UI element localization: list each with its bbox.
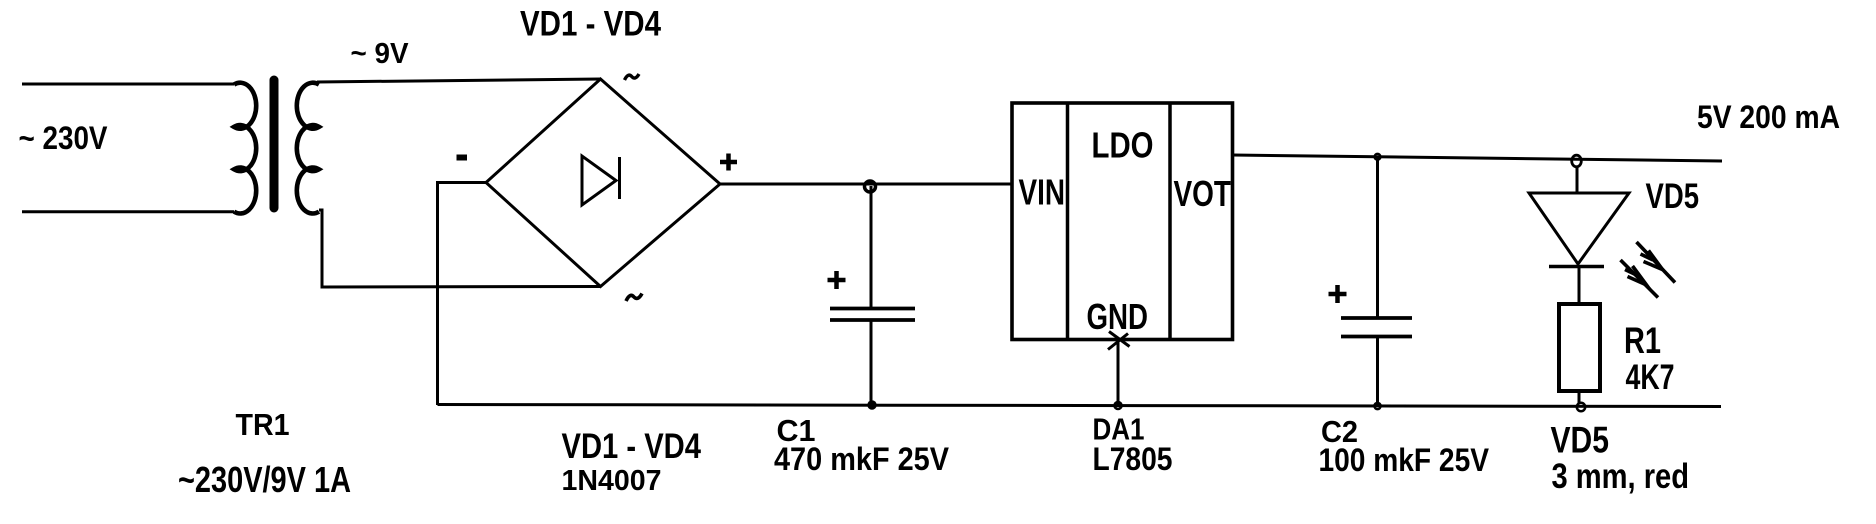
svg-text:1N4007: 1N4007: [562, 465, 662, 497]
svg-text:~230V/9V 1A: ~230V/9V 1A: [178, 459, 351, 500]
svg-text:VD1 - VD4: VD1 - VD4: [562, 427, 702, 466]
svg-text:~ 230V: ~ 230V: [19, 120, 109, 156]
svg-text:VD5: VD5: [1646, 177, 1700, 216]
svg-text:L7805: L7805: [1093, 441, 1173, 477]
svg-text:GND: GND: [1087, 296, 1149, 337]
svg-text:VOT: VOT: [1174, 173, 1232, 214]
svg-text:470 mkF 25V: 470 mkF 25V: [774, 441, 950, 477]
svg-text:VD5: VD5: [1551, 420, 1610, 461]
svg-text:R1: R1: [1624, 320, 1661, 361]
svg-text:~ 9V: ~ 9V: [351, 38, 410, 70]
svg-text:LDO: LDO: [1092, 125, 1154, 166]
svg-text:5V 200 mA: 5V 200 mA: [1697, 99, 1840, 135]
svg-text:4K7: 4K7: [1626, 358, 1675, 397]
svg-text:TR1: TR1: [236, 408, 290, 442]
svg-text:100 mkF 25V: 100 mkF 25V: [1319, 442, 1490, 478]
svg-text:VD1 - VD4: VD1 - VD4: [520, 4, 661, 44]
svg-text:VIN: VIN: [1019, 172, 1066, 213]
svg-text:3 mm, red: 3 mm, red: [1552, 456, 1690, 496]
